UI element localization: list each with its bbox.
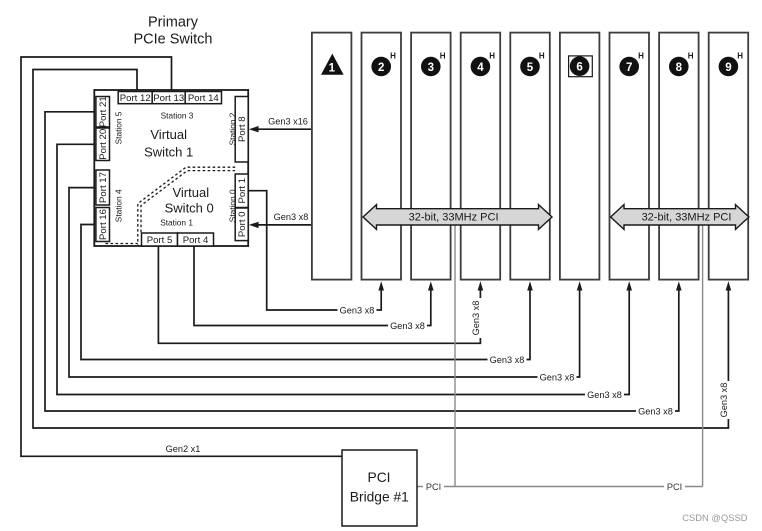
- port box Port 21: [96, 97, 110, 128]
- label Gen3 x8 slot6: [538, 372, 577, 383]
- wire Port5 to slot4 (Gen3 x8): [158, 246, 480, 343]
- label Gen3 x8 slot8: [636, 406, 675, 417]
- svg-text:1: 1: [329, 63, 336, 75]
- wire slot1 to Port8 (Gen3 x16): [256, 128, 312, 130]
- svg-text:Bridge #1: Bridge #1: [350, 490, 409, 505]
- wire slot1 to Port0 (Gen3 x8): [256, 224, 312, 226]
- svg-text:H: H: [638, 52, 644, 61]
- svg-text:Virtual: Virtual: [150, 127, 187, 142]
- label PCI right: [664, 481, 685, 492]
- svg-text:32-bit, 33MHz PCI: 32-bit, 33MHz PCI: [642, 212, 732, 224]
- svg-text:8: 8: [676, 62, 683, 74]
- PCI Bridge #1 box: [342, 450, 417, 526]
- svg-text:3: 3: [428, 62, 434, 74]
- wire Port20 to slot7 (Gen3 x8): [57, 144, 629, 394]
- svg-text:Port 0: Port 0: [237, 211, 248, 237]
- port box Port 17: [96, 170, 110, 205]
- svg-text:Gen3 x8: Gen3 x8: [274, 212, 309, 222]
- slot 6 circle marker: [570, 56, 590, 76]
- svg-text:Gen2 x1: Gen2 x1: [166, 444, 201, 454]
- dashed boundary virtual switch 0 upper line: [138, 167, 235, 244]
- slot 5 circle marker: [520, 57, 540, 77]
- port box Port 4: [178, 233, 214, 246]
- slot 9: [709, 33, 749, 280]
- port box Port 0: [235, 208, 248, 241]
- port box Port 1: [235, 174, 248, 208]
- PCI bus vertical wire 2 (bridge to second PCI bus): [702, 222, 704, 487]
- slot 7: [610, 33, 650, 280]
- svg-text:H: H: [737, 52, 743, 61]
- arrowhead into slot 9: [726, 281, 732, 290]
- svg-text:Port 12: Port 12: [120, 93, 151, 104]
- svg-text:Switch 0: Switch 0: [165, 201, 214, 216]
- svg-text:Virtual: Virtual: [172, 185, 209, 200]
- slot 7 circle marker: [619, 57, 639, 77]
- port box Port 12: [118, 92, 152, 104]
- svg-text:Station 2: Station 2: [228, 112, 238, 145]
- svg-text:Gen3 x8: Gen3 x8: [719, 383, 729, 418]
- switch outer box: [94, 90, 248, 246]
- slot 6: [560, 33, 600, 280]
- PCI bus arrow 2 (32-bit 33MHz PCI): [611, 205, 749, 230]
- svg-text:H: H: [390, 52, 396, 61]
- svg-text:Gen3 x8: Gen3 x8: [638, 406, 673, 416]
- arrowhead into Port 8: [249, 126, 259, 132]
- title Primary PCIe Switch: [134, 15, 213, 48]
- svg-text:CSDN @QSSD: CSDN @QSSD: [682, 512, 747, 523]
- label Gen3 x8 vertical slot9: [719, 381, 733, 419]
- svg-text:Port 14: Port 14: [188, 93, 220, 104]
- label PCI left: [423, 481, 444, 492]
- svg-text:Port 16: Port 16: [98, 209, 109, 240]
- slot 5: [510, 33, 550, 280]
- wire Port12 to slot9 (Gen3 x8): [33, 70, 728, 429]
- svg-text:H: H: [539, 52, 545, 61]
- wire Port13 to PCI Bridge (Gen2 x1): [21, 57, 342, 456]
- port box Port 8: [235, 97, 248, 163]
- svg-text:Primary: Primary: [148, 15, 199, 31]
- svg-text:Station 1: Station 1: [160, 217, 193, 227]
- svg-text:Gen3 x16: Gen3 x16: [268, 117, 308, 127]
- svg-text:Switch 1: Switch 1: [144, 145, 193, 160]
- wire Port1 to slot2 (Gen3 x8): [248, 191, 381, 310]
- svg-text:PCI: PCI: [667, 482, 682, 492]
- svg-text:Gen3 x8: Gen3 x8: [540, 372, 575, 382]
- PCI bus arrow 1 (32-bit 33MHz PCI): [363, 205, 552, 230]
- arrowhead into slot 2: [378, 281, 384, 290]
- port box Port 13: [152, 92, 185, 104]
- svg-text:H: H: [489, 52, 495, 61]
- svg-text:Port 21: Port 21: [98, 96, 109, 127]
- svg-text:Gen3 x8: Gen3 x8: [471, 301, 481, 336]
- svg-text:Port 4: Port 4: [183, 235, 209, 246]
- svg-text:2: 2: [378, 62, 384, 74]
- slot 8 circle marker: [669, 57, 689, 77]
- svg-text:4: 4: [477, 62, 484, 74]
- svg-text:9: 9: [725, 62, 731, 74]
- arrowhead into slot 5: [527, 281, 533, 290]
- svg-text:6: 6: [576, 62, 582, 74]
- svg-text:H: H: [440, 52, 446, 61]
- svg-text:PCIe Switch: PCIe Switch: [134, 32, 213, 48]
- port box Port 14: [185, 92, 221, 104]
- dashed boundary bottom segment: [106, 243, 138, 245]
- slot 4 circle marker: [471, 57, 491, 77]
- label Gen3 x8 slot3: [388, 320, 427, 331]
- svg-text:PCI: PCI: [368, 470, 391, 485]
- slot 2: [362, 33, 402, 280]
- dashed boundary virtual switch 0 lower line: [141, 171, 235, 233]
- slot 3 circle marker: [421, 57, 441, 77]
- svg-text:Station 0: Station 0: [228, 189, 238, 222]
- slot 9 circle marker: [719, 57, 739, 77]
- svg-text:PCI: PCI: [426, 482, 441, 492]
- svg-text:Port 1: Port 1: [237, 178, 248, 204]
- slot 2 circle marker: [371, 57, 391, 77]
- label Gen3 x8 vertical slot4: [471, 298, 485, 338]
- wire Port21 to slot8 (Gen3 x8): [45, 112, 679, 411]
- svg-text:Gen3 x8: Gen3 x8: [490, 355, 525, 365]
- svg-text:H: H: [688, 52, 694, 61]
- svg-text:7: 7: [626, 62, 632, 74]
- svg-text:Port 13: Port 13: [153, 93, 184, 104]
- arrowhead into slot 3: [428, 281, 434, 290]
- label Gen3 x8 slot2: [338, 305, 377, 316]
- svg-text:Port 17: Port 17: [98, 172, 109, 203]
- arrowhead into slot 7: [626, 281, 632, 290]
- wire Port4 to slot3 (Gen3 x8): [194, 246, 431, 326]
- svg-text:Station 4: Station 4: [114, 189, 124, 222]
- arrowhead into slot 6: [577, 281, 583, 290]
- arrowhead into slot 4: [478, 281, 484, 290]
- slot 1 triangle marker: [321, 54, 344, 75]
- svg-text:5: 5: [527, 62, 534, 74]
- slot 6 square outline: [569, 56, 593, 77]
- PCI bus vertical wire 1 (bridge to first PCI bus): [454, 222, 456, 487]
- slot 4: [461, 33, 501, 280]
- slot 8: [659, 33, 699, 280]
- svg-text:32-bit, 33MHz PCI: 32-bit, 33MHz PCI: [409, 212, 499, 224]
- port box Port 5: [142, 233, 178, 246]
- slot 1: [312, 33, 352, 280]
- svg-text:Gen3 x8: Gen3 x8: [587, 390, 622, 400]
- svg-text:Gen3 x8: Gen3 x8: [340, 305, 375, 315]
- slot 3: [411, 33, 451, 280]
- svg-text:Port 20: Port 20: [98, 129, 109, 160]
- PCI bridge horizontal wire: [417, 486, 703, 488]
- label Gen3 x8 slot5: [488, 354, 527, 365]
- arrowhead into slot 8: [676, 281, 682, 290]
- arrowhead into Port 0: [249, 222, 259, 228]
- port box Port 20: [96, 128, 110, 161]
- svg-text:Station 5: Station 5: [114, 111, 124, 144]
- svg-text:Station 3: Station 3: [161, 111, 194, 121]
- label Gen3 x8 slot7: [585, 389, 624, 400]
- wire Port16 to slot5 (Gen3 x8): [81, 225, 530, 360]
- svg-text:Gen3 x8: Gen3 x8: [390, 321, 425, 331]
- svg-text:Port 8: Port 8: [237, 116, 248, 142]
- wire Port17 to slot6 (Gen3 x8): [69, 188, 580, 377]
- svg-text:Port 5: Port 5: [147, 235, 173, 246]
- port box Port 16: [96, 208, 110, 242]
